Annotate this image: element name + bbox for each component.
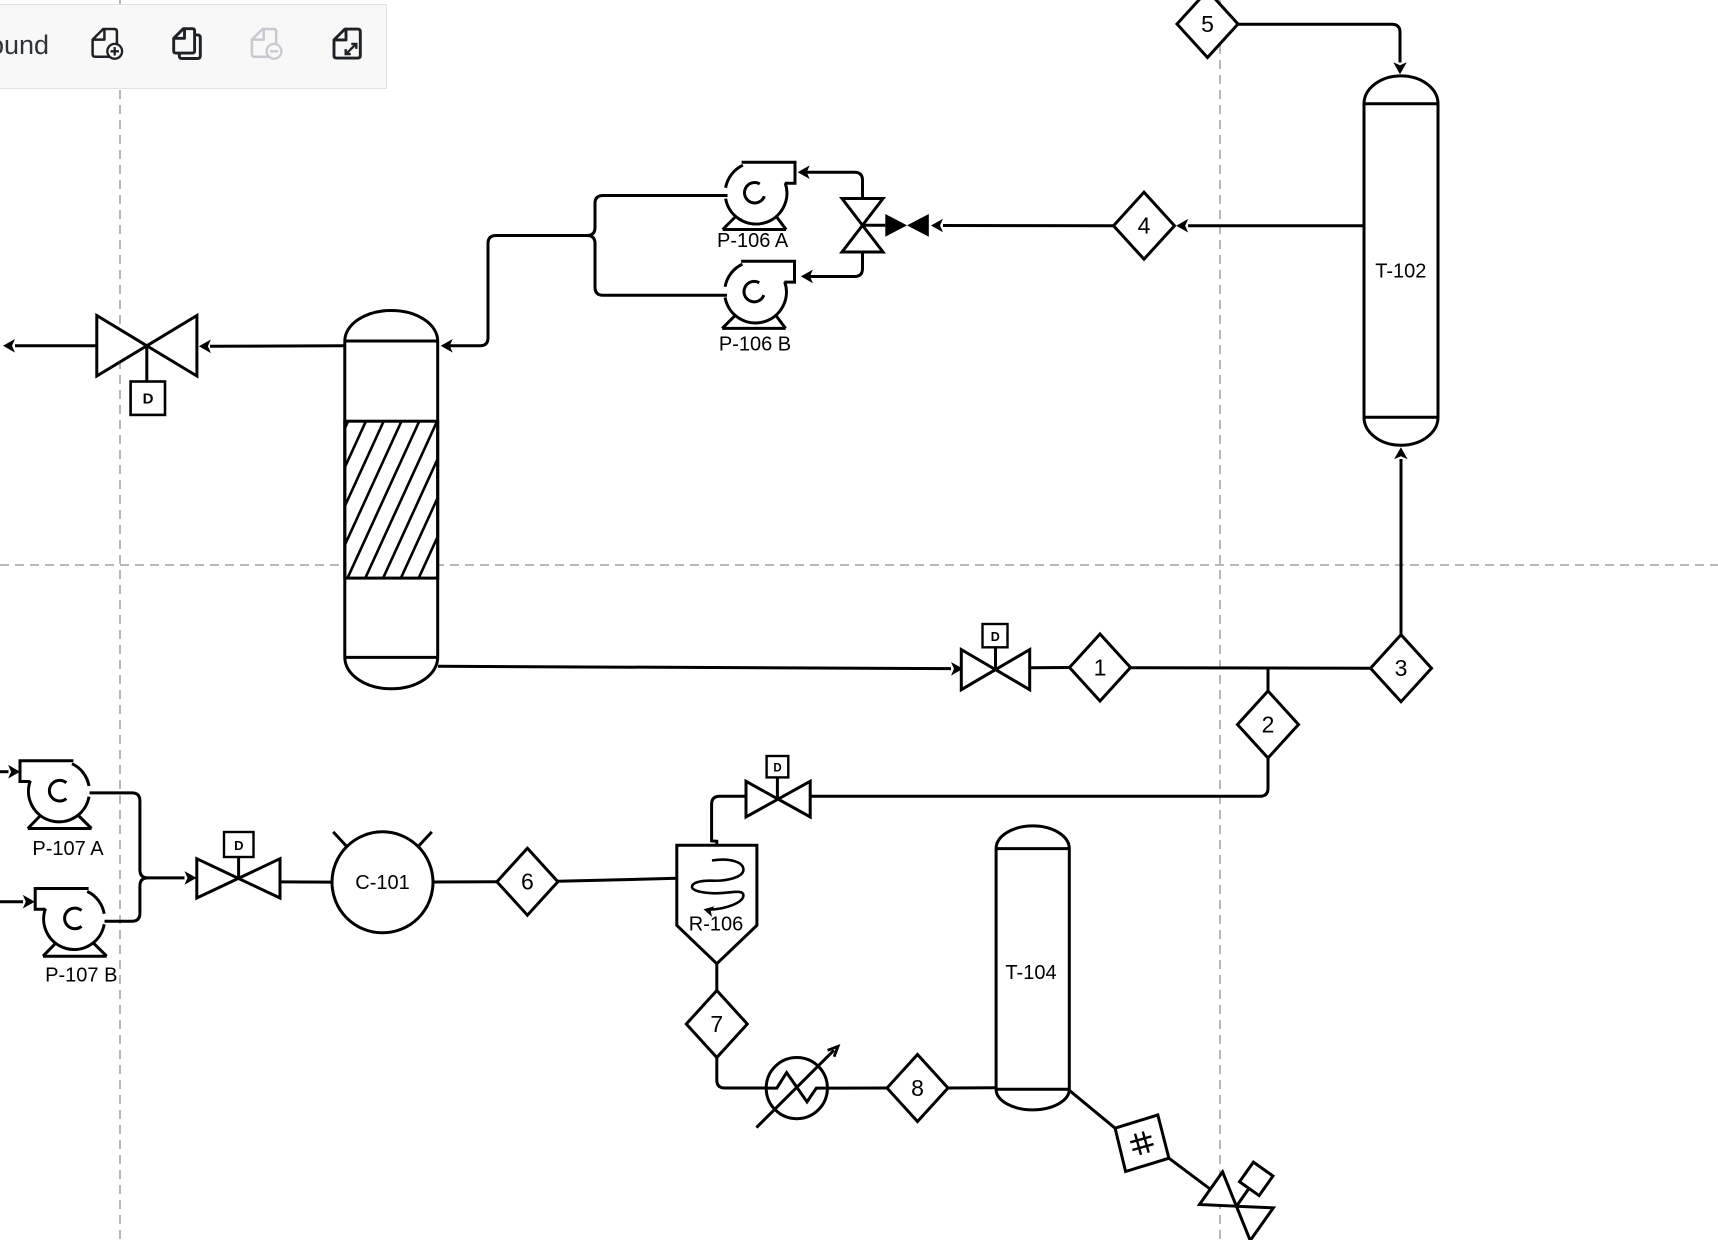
svg-text:D: D <box>143 391 154 408</box>
stream diamond 7 <box>686 991 747 1058</box>
pump P-106 B <box>725 282 786 323</box>
svg-text:8: 8 <box>911 1075 924 1101</box>
valve V5 (manual, with D actuator) <box>97 316 147 377</box>
stream diamond 8 <box>887 1055 948 1122</box>
stream diamond 3 <box>1371 635 1432 702</box>
stream diamond 1 <box>1070 634 1131 701</box>
svg-text:4: 4 <box>1138 213 1151 239</box>
toolbar icon: duplicate page <box>179 35 200 59</box>
wire: diamond 7 to heat exchanger <box>717 1058 766 1089</box>
wire: valve V6 top to pump P-106 A outlet <box>801 172 863 198</box>
pump P-107 B <box>44 909 105 950</box>
svg-text:3: 3 <box>1395 655 1408 681</box>
toolbar icon: expand page <box>334 29 360 58</box>
wire: R-106 bottom to diamond 7 <box>715 964 718 991</box>
svg-text:P-106 A: P-106 A <box>717 230 789 252</box>
wire: C-101 to diamond 6 <box>433 880 497 883</box>
wire: heat exchanger to diamond 8 <box>827 1087 887 1090</box>
svg-text:R-106: R-106 <box>689 914 743 936</box>
toolbar icon: remove page (disabled) <box>252 29 276 57</box>
svg-text:7: 7 <box>710 1011 723 1037</box>
page guide vertical left <box>119 0 121 1240</box>
wire: valve V6 bottom to pump P-106 B outlet <box>804 252 863 277</box>
stream diamond 5 <box>1177 0 1238 58</box>
wire: column to valve V5 <box>210 344 344 347</box>
wire: diamond 8 to T-104 <box>948 1086 996 1089</box>
stream diamond 2 <box>1238 691 1299 758</box>
svg-text:D: D <box>773 763 781 775</box>
wire: P-107 B discharge <box>105 878 148 921</box>
svg-text:5: 5 <box>1201 11 1214 37</box>
wire: diamond 5 to T-102 top <box>1238 24 1400 62</box>
svg-text:6: 6 <box>521 869 534 895</box>
pump P-106 A <box>726 183 787 224</box>
check valve (filled) <box>885 214 907 237</box>
packed column vessel <box>345 310 438 688</box>
wire: hash unit to valve V7 <box>1169 1158 1210 1189</box>
column T-102 <box>1364 76 1438 445</box>
wire: P-107 A discharge <box>90 793 185 878</box>
valve V6 (vertical gate valve) <box>842 199 883 226</box>
svg-text:P-106 B: P-106 B <box>719 334 791 356</box>
R-106 vortex coil <box>692 860 743 910</box>
valve V7 (rotated, with square actuator) <box>1199 1151 1288 1240</box>
wire: valve V4 to R-106 top <box>712 796 746 845</box>
page guide vertical right <box>1219 0 1221 1240</box>
wire: feed arrow into P-107 B <box>0 900 23 903</box>
wire: P-106 A suction <box>443 196 728 346</box>
wire: valve V3 to diamond 1 <box>1030 666 1070 669</box>
heat exchanger adjust arrow <box>756 1050 834 1127</box>
svg-text:P-107 B: P-107 B <box>45 965 117 987</box>
svg-text:C-101: C-101 <box>355 872 409 894</box>
hash unit (rotated square) <box>1115 1115 1169 1172</box>
svg-text:2: 2 <box>1262 712 1275 738</box>
svg-text:1: 1 <box>1094 655 1107 681</box>
reactor R-106 <box>677 845 757 964</box>
page guide horizontal <box>0 564 1718 566</box>
wire: diamond 1 to diamond 3 <box>1131 666 1371 670</box>
pump P-107 A <box>28 781 89 822</box>
valve V4 (with D actuator) <box>746 781 778 817</box>
svg-text:D: D <box>991 630 1000 644</box>
toolbar icon: add page <box>93 29 117 57</box>
wire: diamond 2 to valve V4 <box>810 758 1268 796</box>
valve V3 (with D actuator) <box>961 650 995 690</box>
stream diamond 6 <box>497 848 558 915</box>
svg-text:D: D <box>234 838 243 853</box>
wire: valve V6 to check valve <box>863 224 886 227</box>
wire: packed column bottoms to valve V3 <box>438 666 951 668</box>
wire: valve V5 to left edge (product out) <box>15 344 97 347</box>
stream diamond 4 <box>1114 192 1175 259</box>
wire: feed arrow into P-107 A <box>0 770 9 773</box>
valve V2 (with D actuator) <box>197 859 239 898</box>
wire: T-102 to diamond 4 <box>1188 224 1364 227</box>
svg-text:P-107 A: P-107 A <box>32 838 104 860</box>
heat exchanger E (circle with coil) <box>766 1058 827 1119</box>
wire: diamond 4 to check valve <box>943 224 1114 227</box>
svg-text:T-104: T-104 <box>1005 962 1056 984</box>
wire: valve V2 to C-101 <box>280 880 332 883</box>
wire: P-106 B suction <box>587 236 727 296</box>
compressor C-101 <box>332 832 433 933</box>
wire: diamond 6 to R-106 <box>558 878 677 881</box>
wire: junction to diamond 2 <box>1267 668 1270 691</box>
svg-text:T-102: T-102 <box>1375 261 1426 283</box>
wire: T-104 bottoms to hash unit <box>1069 1090 1115 1128</box>
wire: diamond 3 to T-102 bottom <box>1400 459 1403 635</box>
column T-104 <box>996 826 1069 1110</box>
